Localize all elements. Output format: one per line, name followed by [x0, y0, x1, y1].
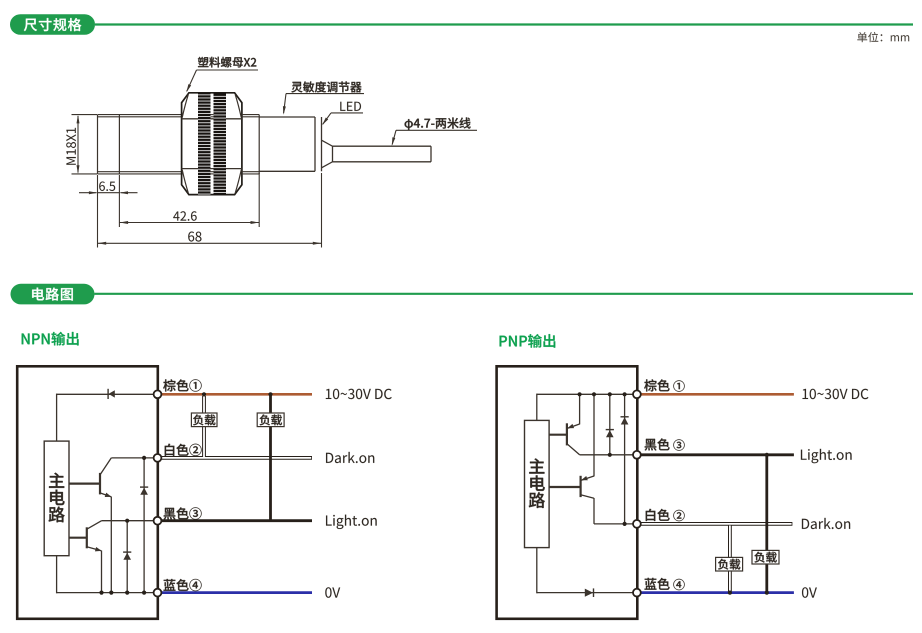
- PNP black output wire: [640, 455, 794, 593]
- NPN label 黑色3: [164, 507, 202, 519]
- NPN terminal 3: [154, 517, 162, 525]
- NPN title: [22, 332, 79, 346]
- PNP Q1 collector wire to black: [580, 454, 634, 456]
- PNP terminal 3: [633, 451, 641, 459]
- PNP Q2 emitter riser: [593, 394, 595, 476]
- NPN 主电路 text: [49, 473, 65, 523]
- PNP 主电路 text: [529, 458, 545, 508]
- NPN bottom riser wire: [56, 556, 58, 594]
- NPN label 10~30V DC: [326, 389, 392, 399]
- PNP brown supply wire: [640, 393, 794, 396]
- PNP white wire underlay: [640, 524, 792, 593]
- PNP transistor Q1: [549, 423, 580, 455]
- NPN label 蓝色4: [164, 579, 202, 591]
- NPN transistor Q1: [69, 458, 112, 497]
- NPN black output wire: [161, 394, 312, 520]
- dimension 42.6: [119, 173, 259, 227]
- PNP left riser wire: [536, 394, 538, 421]
- NPN blue ground wire: [161, 591, 312, 594]
- NPN label 白色2: [165, 444, 202, 456]
- PNP label 10~30V DC: [803, 389, 869, 399]
- PNP label 蓝色4: [645, 578, 685, 590]
- unit note 单位：mm: [857, 32, 909, 42]
- NPN terminal 4: [154, 589, 162, 597]
- dimension M18X1: [66, 115, 97, 174]
- NPN load box 1: [191, 413, 217, 427]
- NPN terminal 2: [154, 454, 162, 462]
- PNP outer box: [497, 366, 638, 619]
- NPN diode D1: [108, 389, 115, 399]
- NPN zener ZD1: [140, 458, 148, 593]
- label 灵敏度调节器: [283, 81, 364, 114]
- section header pill 尺寸规格: [10, 14, 95, 35]
- PNP label 白色2: [646, 509, 685, 521]
- NPN label 0V: [325, 587, 340, 597]
- PNP zener ZD1: [606, 394, 614, 455]
- circuit section rule: [95, 293, 914, 295]
- cable: [333, 146, 432, 162]
- PNP ground wire bottom: [537, 592, 634, 594]
- PNP label 棕色1: [644, 379, 684, 391]
- NPN white wire overlay: [162, 396, 312, 458]
- NPN Q1 emitter riser: [110, 497, 112, 593]
- NPN Q2 collector wire to black: [102, 520, 154, 522]
- PNP bottom riser wire: [536, 548, 538, 594]
- PNP terminal 2: [633, 520, 641, 528]
- NPN supply wire top: [57, 393, 155, 395]
- NPN main circuit box 主电路: [44, 441, 69, 556]
- section header rule: [95, 23, 913, 25]
- PNP terminal 4: [633, 589, 641, 597]
- nut knurl band right: [214, 93, 227, 195]
- dimension 68: [98, 173, 322, 248]
- NPN label Light.on: [326, 515, 377, 529]
- label φ4.7-两米线: [392, 117, 477, 145]
- PNP blue ground wire: [640, 591, 794, 594]
- PNP Q2 collector wire to white: [594, 523, 634, 525]
- NPN label Dark.on: [326, 452, 374, 463]
- NPN ground wire bottom: [57, 592, 155, 594]
- PNP terminal 1: [633, 390, 641, 398]
- PNP junction dots: [578, 392, 627, 526]
- plastic nut pair outline: [182, 93, 242, 195]
- NPN transistor Q2: [69, 521, 102, 552]
- PNP white wire overlay: [641, 524, 791, 592]
- PNP load box 2: [752, 550, 779, 564]
- PNP Q1 emitter riser: [579, 394, 581, 424]
- PNP diode D2: [585, 588, 594, 597]
- NPN label 棕色1: [163, 379, 201, 391]
- barrel stub behind nut: [242, 115, 259, 174]
- nut knurl band left: [198, 93, 211, 195]
- sensor barrel body: [98, 115, 182, 174]
- section header pill 电路图: [11, 284, 95, 305]
- NPN Q1 collector wire to white: [111, 457, 154, 459]
- PNP load box 1: [716, 557, 743, 571]
- NPN Q2 emitter riser: [101, 551, 103, 593]
- cable gland: [322, 140, 333, 168]
- PNP main circuit box 主电路: [525, 420, 550, 547]
- NPN zener ZD2: [123, 521, 131, 593]
- NPN load box 2: [257, 413, 284, 427]
- rear housing (sensitivity adjuster): [259, 117, 321, 171]
- NPN outer box: [17, 366, 158, 619]
- PNP label 0V: [802, 587, 817, 597]
- NPN white wire underlay: [161, 396, 313, 458]
- label LED: [322, 102, 363, 126]
- PNP supply wire top: [537, 393, 634, 395]
- NPN terminal 1: [154, 390, 162, 398]
- NPN brown supply wire: [161, 393, 312, 396]
- PNP Q2 collector riser: [593, 498, 595, 524]
- NPN junction dots: [99, 456, 146, 595]
- PNP zener ZD2: [621, 394, 629, 524]
- PNP label Dark.on: [802, 518, 850, 529]
- PNP label Light.on: [801, 449, 852, 463]
- dimension 6.5: [79, 175, 138, 227]
- PNP transistor Q2: [549, 476, 594, 499]
- PNP label 黑色3: [645, 438, 685, 450]
- PNP load junction dots: [728, 453, 769, 595]
- PNP title: [500, 334, 556, 348]
- NPN left riser wire: [56, 394, 58, 442]
- label 塑料螺母X2: [186, 57, 258, 93]
- NPN load junction dots: [202, 392, 273, 396]
